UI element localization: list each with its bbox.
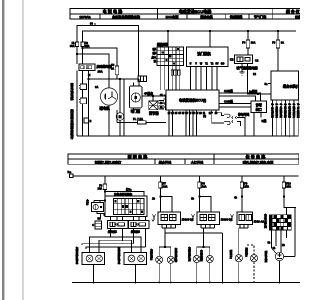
svg-text:刹车灯: 刹车灯 (229, 249, 233, 259)
Y mark left of JD3 (230, 215, 234, 222)
svg-text:GD: GD (221, 63, 225, 66)
svg-text:信号电路: 信号电路 (246, 153, 267, 159)
page scan edge left (3, 0, 5, 300)
svg-text:右前照灯泡总: 右前照灯泡总 (117, 246, 121, 265)
header table instrument (273, 8, 302, 19)
wire FE down bend (284, 188, 296, 208)
svg-text:7b: 7b (297, 104, 300, 106)
svg-text:15A: 15A (98, 187, 103, 191)
svg-text:组合仪表(I: 组合仪表(I (283, 84, 298, 89)
ignition switch assembly (130, 79, 143, 111)
lamp C2 optional dashed (247, 245, 254, 283)
lamp A1 (156, 256, 163, 263)
svg-text:电喷发动ECU电器: 电喷发动ECU电器 (179, 8, 212, 14)
svg-text:左转向灯后: 左转向灯后 (187, 246, 191, 262)
svg-text:FL 7.5A: FL 7.5A (133, 117, 143, 121)
wire reg right vertical (165, 96, 167, 110)
node B+ terminal (68, 170, 74, 178)
svg-text:右组合开关: 右组合开关 (263, 213, 267, 229)
diode D1 (84, 118, 92, 123)
wire starter down (119, 120, 121, 136)
svg-text:右转向后: 右转向后 (199, 249, 203, 262)
fuse FA (98, 184, 107, 191)
header table signal circuit (214, 153, 299, 164)
svg-text:油门拨机: 油门拨机 (197, 51, 211, 56)
svg-text:(4): (4) (203, 115, 206, 118)
svg-text:3A: 3A (95, 85, 98, 89)
wire riser to injector grid (167, 31, 169, 47)
wire F1 down (76, 47, 78, 64)
svg-text:5V: 5V (216, 63, 219, 66)
signal bus mid (73, 175, 299, 177)
node 30A tick (90, 22, 95, 26)
svg-text:M: M (119, 115, 122, 119)
svg-text:大灯: 大灯 (85, 199, 89, 206)
wire F4 riser (247, 31, 249, 40)
wire F3 down (277, 48, 279, 71)
idle switch connector (203, 110, 230, 125)
svg-text:30: 30 (90, 22, 94, 26)
relay RL2 headlight (129, 221, 150, 229)
svg-text:磁电机: 磁电机 (99, 106, 111, 111)
svg-text:启动及其他辅助系统: 启动及其他辅助系统 (112, 14, 141, 19)
fuse F3 (272, 40, 284, 48)
svg-text:15A: 15A (85, 44, 90, 48)
svg-text:组合仪: 组合仪 (286, 8, 300, 14)
wires relay outputs to rails (111, 229, 146, 247)
injector connector grid (157, 47, 184, 66)
diagnostic connector box (251, 101, 267, 113)
wires grid to ECU (161, 66, 180, 91)
wire F3 riser (277, 31, 279, 40)
svg-text:JD19-A2: JD19-A2 (254, 220, 265, 224)
instrument left pins (257, 82, 271, 95)
wire CAN2 (219, 96, 256, 101)
sensor pin ticks (271, 103, 300, 106)
magneto G1 (100, 88, 117, 105)
svg-text:电源电路: 电源电路 (103, 8, 124, 14)
wires JD3 bottom (239, 225, 248, 255)
svg-text:2b: 2b (152, 198, 155, 201)
svg-text:起动电机: 起动电机 (200, 14, 213, 19)
svg-text:10A: 10A (163, 185, 168, 189)
svg-text:仪表: 仪表 (294, 14, 300, 19)
sensor wire drops (273, 100, 299, 136)
svg-text:4b: 4b (234, 197, 237, 200)
wire FB branch (160, 188, 162, 212)
fuse FC (198, 182, 207, 189)
svg-text:9A: 9A (281, 41, 284, 45)
svg-text:进气压力: 进气压力 (292, 106, 296, 118)
wire horn down (279, 261, 281, 283)
svg-text:牌照灯: 牌照灯 (244, 247, 248, 257)
wire diag left 2 (219, 106, 251, 108)
battery connector 1 (79, 84, 87, 90)
fuse FL (133, 117, 146, 124)
bus bottom dots (93, 282, 281, 284)
fuse FA riser (104, 176, 106, 184)
dimmer switch box (92, 203, 104, 212)
svg-text:喷1: 喷1 (152, 47, 156, 51)
brake switch box JD3 (237, 212, 253, 225)
wire F4 down (247, 48, 249, 55)
wire horn right riser (294, 208, 296, 257)
Y mark left of JD1 (152, 215, 156, 222)
lamp B2 (206, 256, 213, 263)
lamp bracket A (159, 246, 171, 248)
lamp C1 brake (235, 255, 242, 262)
aux device left of relays (92, 221, 101, 229)
svg-text:照明电路: 照明电路 (128, 153, 149, 159)
ground bus bottom (72, 282, 300, 284)
wire F5 down (116, 75, 118, 79)
wires grid bottom to horn (268, 231, 287, 254)
svg-text:左前照灯泡总: 左前照灯泡总 (75, 246, 79, 265)
svg-text:15A: 15A (286, 185, 291, 189)
header table EFI ECU circuit (158, 8, 273, 19)
wire under switch (97, 212, 104, 221)
ECU left pins (160, 94, 166, 109)
wire riser to throttle (209, 31, 211, 47)
wires ECU bottom drops (169, 110, 197, 136)
lamp B1 (193, 256, 200, 263)
ground bus upper (77, 135, 299, 137)
parking switch (232, 113, 250, 137)
wire FD down (241, 188, 243, 212)
headlight assembly left (82, 253, 105, 265)
relay RL1 headlight (108, 221, 129, 229)
svg-text:2a线圈: 2a线圈 (249, 90, 257, 94)
fuse FC riser (199, 176, 201, 182)
combo switch connector box (105, 196, 147, 217)
svg-text:15A: 15A (244, 185, 249, 189)
starter motor M (116, 113, 124, 121)
svg-text:K线: K线 (262, 119, 267, 123)
svg-text:B: B (90, 119, 92, 123)
sensor labels vertical (270, 106, 300, 118)
wire horn right link (284, 256, 295, 258)
wire HL1 down (93, 265, 95, 283)
wires throttle to ECU (191, 67, 218, 91)
wire starter feeds (117, 79, 124, 136)
svg-text:前照灯,尾灯,仪表灯: 前照灯,尾灯,仪表灯 (95, 159, 122, 164)
wire CAN1 (219, 93, 261, 101)
wire lamp C1 down (238, 262, 240, 283)
svg-text:CAN高: CAN高 (224, 89, 233, 93)
svg-text:U: U (190, 63, 192, 66)
instrument cluster box (271, 71, 299, 100)
wire FC branch (199, 188, 201, 212)
fuse F1 (70, 41, 79, 48)
svg-text:喇叭,转向灯,刹车,电源: 喇叭,转向灯,刹车,电源 (243, 159, 274, 164)
svg-text:左组合开关黑色: 左组合开关黑色 (113, 193, 133, 197)
wire lock right (142, 95, 166, 97)
lamp C2 (250, 255, 257, 262)
wire FL bus (117, 121, 138, 123)
wires lamps B down (197, 263, 210, 283)
svg-text:节气门体: 节气门体 (254, 14, 267, 19)
fuse FD (240, 182, 249, 189)
svg-text:12V9Ah: 12V9Ah (79, 15, 90, 19)
wire lamp feed branch (105, 192, 144, 197)
node dot (82, 47, 83, 48)
svg-text:电门锁: 电门锁 (131, 109, 141, 114)
wire top feed A (77, 26, 139, 77)
wire diag down K (254, 113, 267, 137)
wire diag left 1 (219, 103, 251, 105)
keyswitch feed box (138, 76, 147, 82)
svg-text:电喷发动机ECU(I): 电喷发动机ECU(I) (179, 98, 206, 103)
regulator block (149, 100, 164, 109)
wire grid riser (286, 208, 288, 215)
wire relay downs (76, 70, 78, 136)
op ECU box U1 (166, 90, 219, 110)
relay K0 start relay box (79, 64, 95, 70)
horn (275, 252, 283, 260)
wire cross link (165, 232, 223, 234)
wires JD1 bottom (162, 225, 176, 248)
bus mid dots (104, 175, 285, 177)
wire bracket head switch (94, 200, 105, 202)
svg-text:继电器1: 继电器1 (107, 230, 118, 234)
svg-text:10A: 10A (251, 41, 256, 45)
rail 4 (86, 247, 146, 249)
wire branch y54 (77, 54, 109, 88)
wire FA down (104, 190, 106, 217)
signal connector grid (269, 215, 292, 231)
wire F2 down (82, 47, 84, 64)
svg-text:组合开关: 组合开关 (159, 159, 172, 164)
wires under combo box (111, 217, 146, 221)
bus dots upper (82, 135, 291, 137)
wire battery down (82, 104, 84, 136)
svg-text:K2: K2 (230, 58, 234, 62)
svg-text:喷2: 喷2 (152, 51, 156, 55)
svg-text:停车开关: 停车开关 (237, 113, 249, 117)
page fold line (22, 0, 24, 300)
rail 2 (99, 240, 132, 252)
svg-text:右转向灯前: 右转向灯前 (174, 247, 178, 263)
svg-text:4P黑色: 4P黑色 (144, 92, 153, 96)
svg-text:传感器类: 传感器类 (229, 14, 243, 19)
wire HL2 down (135, 265, 137, 283)
svg-text:蓄电池电瓶: 蓄电池电瓶 (70, 82, 73, 101)
relay K2 fuel pump relay (230, 55, 253, 64)
svg-text:C2: C2 (255, 59, 259, 63)
svg-text:10A: 10A (202, 185, 207, 189)
wire branch y48 (83, 48, 118, 66)
ECU pin labels bottom (168, 112, 218, 115)
Y mark left of JD2 (191, 215, 195, 222)
svg-text:30A: 30A (70, 44, 75, 48)
wire relay down ground (240, 64, 245, 76)
wire top bus B (83, 31, 297, 42)
fuse F2 (81, 41, 90, 48)
battery connector 2 (79, 98, 87, 104)
svg-text:9A: 9A (111, 67, 114, 71)
svg-text:左转向灯: 左转向灯 (149, 248, 153, 261)
svg-text:接口: 接口 (256, 107, 262, 112)
rail 1 (90, 237, 142, 253)
svg-text:点火: 点火 (150, 55, 156, 59)
wire regulator top (152, 96, 154, 101)
svg-text:灯5a: 灯5a (126, 188, 132, 192)
svg-text:3b: 3b (191, 198, 194, 201)
fuse F4 (242, 40, 255, 48)
wires JD2 bottom (201, 225, 215, 248)
fuse FE (282, 182, 291, 189)
rail dots (110, 236, 124, 241)
lamp bracket B (197, 246, 210, 248)
header table lighting circuit (68, 153, 214, 164)
label start relay (97, 64, 113, 74)
svg-text:点火线圈: 点火线圈 (296, 106, 300, 118)
svg-text:大灯开关: 大灯开关 (191, 159, 204, 164)
fuse FB riser (160, 176, 162, 182)
fuse FE riser (283, 176, 285, 182)
svg-text:CAN低: CAN低 (224, 99, 233, 103)
svg-text:调节器: 调节器 (149, 111, 159, 116)
svg-text:ECU电源: ECU电源 (166, 14, 180, 19)
header table power circuit (70, 8, 158, 19)
svg-text:B+: B+ (68, 170, 72, 174)
svg-text:诊断: 诊断 (256, 102, 262, 107)
wire magneto down (108, 105, 110, 136)
fuse FD riser (241, 176, 243, 182)
headlight assembly right (124, 253, 147, 265)
svg-text:进油泵线: 进油泵线 (157, 43, 168, 47)
wires lamps A down (159, 263, 171, 282)
rail 3 (82, 244, 134, 245)
svg-text:水温传感: 水温传感 (270, 106, 274, 118)
small plug under grid (171, 70, 180, 75)
throttle body box (187, 47, 229, 67)
fuse FB (159, 182, 168, 189)
svg-text:继电器2: 继电器2 (130, 230, 141, 234)
fuse F5 (111, 63, 119, 75)
wire battery link (82, 90, 84, 99)
wire tail drop (222, 233, 224, 283)
svg-text:C: C (92, 224, 94, 227)
svg-text:25A: 25A (98, 70, 103, 74)
dip switch JD1 (158, 212, 181, 225)
labels grid left (150, 47, 156, 63)
lamp A2 (167, 256, 174, 263)
dip switch JD2 (197, 212, 220, 225)
wire y79 to lock (89, 78, 140, 80)
